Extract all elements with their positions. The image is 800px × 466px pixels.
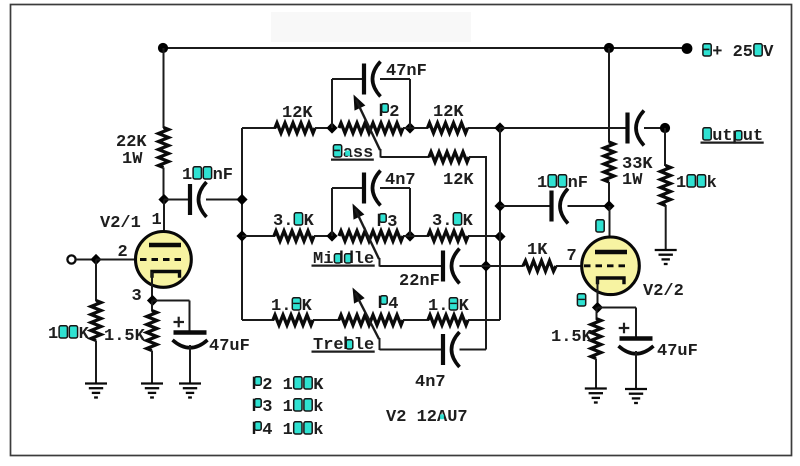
wire bus to 1.8K a	[242, 319, 274, 321]
triode V2/1 envelope	[136, 232, 192, 288]
ground G2	[141, 384, 163, 398]
svg-text:47uF: 47uF	[657, 342, 698, 361]
wire rail to 22K	[163, 48, 165, 128]
wire bus to 3.9K a	[242, 235, 275, 237]
label V2 tube type	[386, 408, 468, 427]
svg-text:4 1 k: 4 1 k	[252, 421, 323, 440]
svg-text:1. K: 1. K	[271, 297, 313, 316]
potentiometer P4 track	[339, 295, 403, 325]
ground G3	[179, 384, 201, 398]
V2/2 anode plate	[595, 250, 627, 254]
label P3 value	[252, 398, 323, 417]
wire 1K to grid V2/2	[556, 265, 585, 267]
node bus A middle	[494, 231, 505, 242]
svg-text:1K: 1K	[527, 241, 548, 260]
node V2/2 cathode junction	[592, 302, 603, 313]
wire 47nF loop right	[380, 79, 410, 128]
wire anode lead V2/2	[609, 206, 611, 253]
svg-text:2 1 K: 2 1 K	[252, 376, 324, 395]
capacitor 4n7 bottom	[415, 332, 460, 392]
wire left bus vertical	[241, 128, 243, 320]
label P2 value	[252, 376, 324, 395]
capacitor 47uF left	[173, 333, 250, 357]
wire P4 to 1.8K b	[403, 319, 429, 321]
node P2 left	[326, 122, 337, 133]
wire bus A to 100nF	[500, 205, 550, 207]
resistor 33K 1W	[604, 142, 653, 190]
wire 47nF loop left	[332, 79, 363, 128]
svg-text:1.5K: 1.5K	[104, 327, 146, 346]
label V2/1	[100, 214, 141, 233]
wire cathode lead V2/2	[597, 279, 599, 309]
wire bus B vertical	[485, 156, 487, 350]
resistor 12K bass right	[428, 103, 468, 133]
capacitor output coupling	[628, 111, 645, 146]
V2/2 cathode	[598, 278, 625, 284]
wire bus to 12K a	[242, 127, 276, 129]
wire cap to output node	[644, 127, 665, 129]
node rail junction left	[158, 43, 168, 53]
wire middle wiper hook	[380, 258, 442, 267]
wire grid V2/1	[96, 259, 141, 261]
svg-text:4n7: 4n7	[415, 373, 446, 392]
wire anode lead V2/1	[163, 200, 165, 247]
P3 wiper arrow	[353, 204, 380, 260]
svg-text:1.5K: 1.5K	[551, 328, 593, 347]
node input junction	[90, 254, 101, 265]
pin 6 label	[595, 219, 605, 238]
wire P3 to 3.9K b	[403, 235, 429, 237]
svg-text:1 nF: 1 nF	[537, 174, 588, 193]
svg-text:+ 25 V: + 25 V	[702, 43, 774, 62]
resistor 1.8K left	[271, 297, 313, 325]
resistor 22K 1W	[116, 128, 169, 170]
wire 1.5K to ground	[151, 351, 153, 385]
resistor 100k output	[661, 166, 717, 206]
resistor 3.9K right	[428, 212, 474, 241]
wire 100K to ground	[95, 341, 97, 385]
ground G6	[655, 250, 677, 264]
wire rail to 33K	[608, 48, 610, 143]
P2 wiper arrow	[354, 95, 381, 151]
node V2/2 anode junction	[603, 200, 614, 211]
node V2/1 anode junction	[158, 194, 169, 205]
resistor 1.5K left	[104, 311, 157, 351]
node bus A top	[494, 122, 505, 133]
wire P2 to 12K b	[403, 127, 428, 129]
svg-text:1. K: 1. K	[428, 297, 470, 316]
resistor 1K	[523, 241, 556, 271]
node P2 right	[404, 122, 415, 133]
wire row1 to output cap	[500, 127, 626, 129]
ground G1	[85, 384, 107, 398]
wire cathode to 1.5K right	[596, 308, 598, 320]
ground G4	[585, 389, 607, 403]
wire cathode to 47uF	[153, 301, 190, 332]
resistor 3.9K left	[273, 212, 315, 241]
svg-text:2: 2	[118, 243, 128, 262]
wire 1.8K b to bus A	[468, 319, 500, 321]
wire 100nF to anode node	[568, 205, 610, 207]
node left bus middle junction	[236, 230, 247, 241]
wire 4n7 loop left	[332, 188, 363, 236]
triode V2/2 envelope	[582, 237, 640, 295]
svg-text:47uF: 47uF	[209, 337, 250, 356]
wire cathode to 47uF right	[598, 308, 637, 338]
V2/1 cathode	[152, 272, 180, 278]
node B+ terminal	[682, 43, 775, 62]
P4 wiper arrow	[353, 288, 380, 340]
wire 100nF to left bus	[206, 199, 242, 201]
svg-text:22nF: 22nF	[399, 272, 440, 291]
wire 4n7 loop right	[380, 188, 410, 236]
node P3 left	[326, 230, 337, 241]
pin 8 label	[577, 293, 587, 312]
potentiometer P2 track	[339, 103, 403, 133]
svg-text:1W: 1W	[622, 171, 643, 190]
svg-text:12K: 12K	[443, 171, 474, 190]
svg-text:3. K: 3. K	[273, 212, 315, 231]
V2/1 grid dashes	[140, 258, 182, 261]
wire bass wiper hook	[381, 149, 430, 158]
node bus A 100nF junction	[494, 200, 505, 211]
svg-text:12K: 12K	[433, 103, 464, 122]
wire 3.9K b to bus A	[468, 235, 500, 237]
node bus B 22nF junction	[480, 260, 491, 271]
svg-text:V2/2: V2/2	[643, 282, 684, 301]
wire output node down	[664, 128, 666, 166]
label P4 value	[252, 421, 323, 440]
label Bass	[331, 144, 374, 163]
svg-text:3 1 k: 3 1 k	[252, 398, 323, 417]
svg-text:V2 12AU7: V2 12AU7	[386, 408, 468, 427]
input terminal	[67, 255, 75, 263]
capacitor 47nF	[364, 62, 427, 97]
resistor 12K bass left	[275, 104, 315, 133]
resistor 12K wiper	[429, 152, 474, 190]
capacitor 22nF	[399, 249, 460, 292]
svg-text:1W: 1W	[122, 150, 143, 169]
pin 1 label	[152, 211, 162, 230]
label Middle	[312, 250, 375, 269]
V2/2 grid dashes	[584, 264, 629, 267]
pin 3 label	[132, 287, 142, 306]
capacitor 4n7 top	[364, 171, 416, 206]
label Output	[701, 127, 764, 146]
wire 100k to ground	[665, 205, 667, 250]
wire bus A vertical	[499, 128, 501, 320]
resistor 100K input	[48, 301, 101, 345]
label Treble	[312, 336, 375, 355]
wire 3.9K to P3	[314, 235, 333, 237]
wire treble wiper hook	[380, 338, 442, 350]
svg-text:3. K: 3. K	[432, 212, 474, 231]
capacitor 47uF right	[619, 339, 698, 362]
wire input node down	[95, 260, 97, 302]
wire anode to 100nF	[164, 199, 188, 201]
svg-text:4: 4	[378, 295, 398, 314]
wire 22nF to 1K	[460, 265, 524, 267]
svg-text:V2/1: V2/1	[100, 214, 141, 233]
wire 1.5K right to ground	[595, 359, 597, 390]
wire 47uF to ground	[189, 345, 191, 384]
node rail junction right	[604, 43, 614, 53]
wire 1.8K to P4	[313, 319, 340, 321]
svg-text:1 K: 1 K	[48, 325, 90, 344]
pin 7 label	[567, 247, 577, 266]
wire 22K to anode node	[163, 168, 165, 201]
svg-text:1 k: 1 k	[676, 174, 717, 193]
svg-text:1: 1	[152, 211, 162, 230]
svg-text:3: 3	[377, 213, 397, 232]
resistor 1.8K right	[428, 297, 470, 325]
wire 47uF right to ground	[635, 351, 637, 389]
wire B+ rail	[163, 47, 687, 49]
node output junction	[660, 123, 670, 133]
potentiometer P3 track	[339, 213, 403, 241]
wire 12K to P2	[315, 127, 333, 129]
svg-text:2: 2	[379, 103, 399, 122]
V2/1 anode plate	[149, 243, 181, 247]
wire 4n7 to bus B	[460, 349, 487, 351]
capacitor 100nF left	[182, 166, 233, 217]
svg-text:12K: 12K	[282, 104, 313, 123]
resistor 1.5K right	[551, 319, 601, 359]
node V2/1 cathode junction	[147, 295, 158, 306]
capacitor 100nF right	[537, 174, 588, 224]
svg-text:3: 3	[132, 287, 142, 306]
plus sign right	[619, 323, 630, 334]
plus sign left	[174, 317, 185, 328]
pin 2 label	[118, 243, 128, 262]
svg-text:1 nF: 1 nF	[182, 166, 233, 185]
node left bus 100nF junction	[236, 194, 247, 205]
wire cathode to 1.5K	[151, 301, 153, 312]
wire 33K to anode node	[608, 182, 610, 206]
wire cathode lead V2/1	[151, 272, 153, 301]
ground G5	[625, 389, 647, 403]
wire 12K b to bus A	[468, 127, 501, 129]
node P3 right	[404, 230, 415, 241]
wire input to grid node	[76, 259, 96, 261]
svg-text:7: 7	[567, 247, 577, 266]
wire 12K wiper to bus B	[469, 156, 486, 158]
label V2/2	[643, 282, 684, 301]
